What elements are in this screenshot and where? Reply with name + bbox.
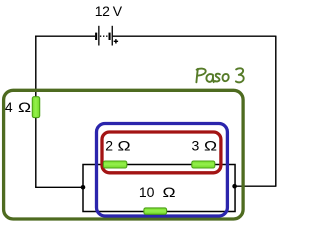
step label Paso 3	[196, 68, 243, 82]
wire: top right segment from battery to right corner	[113, 35, 276, 37]
wire: right vertical down	[275, 36, 277, 187]
resistor R4 10 ohm (horizontal)	[144, 208, 167, 214]
svg-text:Ω: Ω	[204, 139, 217, 154]
resistor R3 3 ohm (horizontal)	[192, 161, 215, 168]
svg-text:Ω: Ω	[163, 186, 176, 201]
svg-text:Ω: Ω	[118, 139, 131, 154]
svg-text:Ω: Ω	[18, 101, 31, 116]
blue group box (parallel combination)	[97, 124, 228, 217]
red group box (series 2ohm-3ohm)	[102, 132, 221, 173]
wire: lower-right horizontal into node B	[235, 185, 277, 187]
svg-text:3: 3	[192, 138, 200, 154]
wire: left vertical from top corner down to lower junction level	[35, 36, 37, 188]
wire: inner loop rectangle (parallel branches)	[83, 165, 235, 212]
svg-text:12 V: 12 V	[95, 3, 123, 19]
wire: top left segment from corner to battery	[35, 35, 95, 37]
resistor R1 4 ohm (vertical)	[32, 97, 39, 118]
battery B1 (12 V source)	[95, 26, 118, 46]
Paso 3 group box (green rounded frame)	[4, 90, 244, 219]
wire: lower-left horizontal into node A	[35, 186, 83, 188]
svg-text:2: 2	[105, 138, 113, 154]
node A (left junction dot)	[81, 185, 86, 190]
svg-text:4: 4	[5, 99, 13, 115]
svg-text:10: 10	[139, 184, 155, 200]
node B (right junction dot)	[232, 184, 237, 189]
resistor R2 2 ohm (horizontal)	[103, 161, 126, 168]
